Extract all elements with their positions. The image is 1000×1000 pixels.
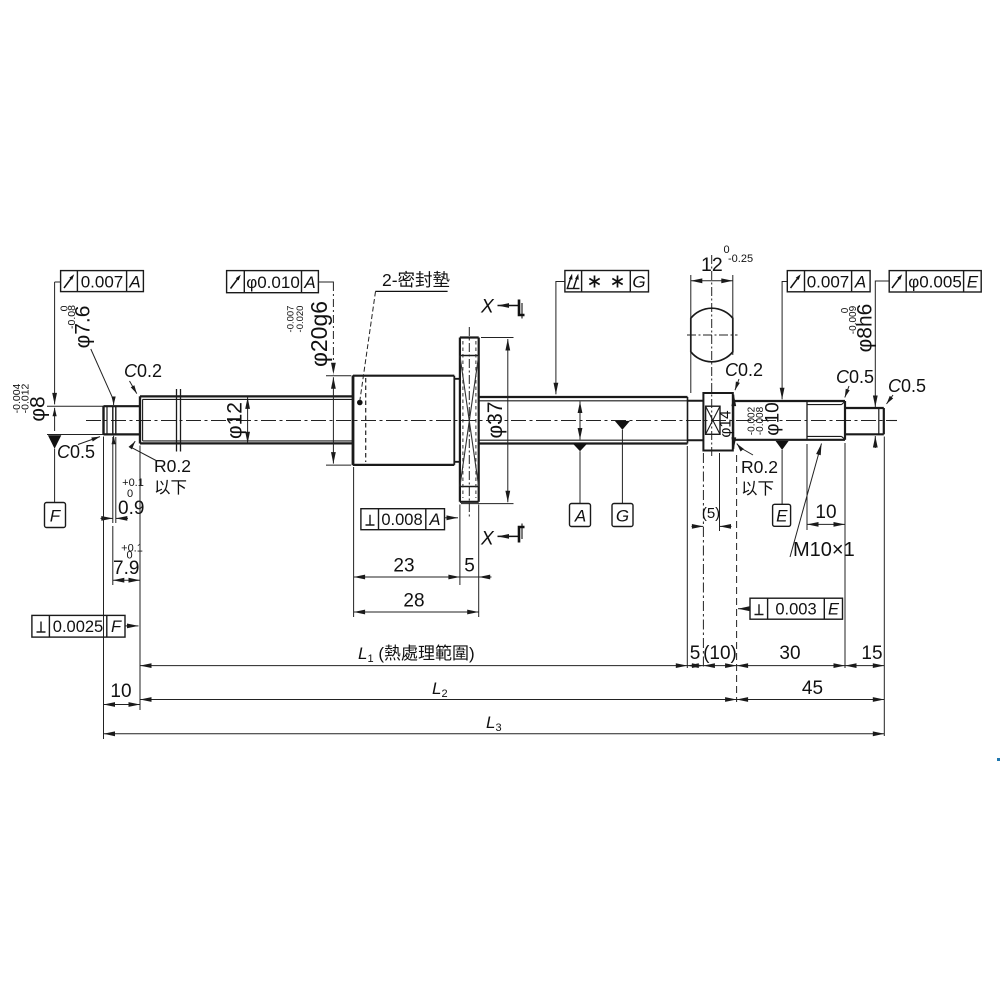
svg-text:0.003: 0.003 [775, 600, 816, 618]
svg-text:R0.2: R0.2 [741, 457, 778, 477]
svg-text:A: A [303, 273, 315, 292]
phi8h6 end journal outline [845, 408, 884, 434]
datum A triangle [573, 443, 588, 451]
svg-text:A: A [128, 272, 140, 291]
svg-text:以下: 以下 [154, 479, 187, 497]
flange hidden lines [463, 341, 476, 498]
svg-text:φ20g6: φ20g6 [306, 301, 332, 367]
seal leader dot [357, 400, 363, 406]
svg-text:-0.020: -0.020 [295, 306, 306, 333]
svg-text:(5): (5) [702, 505, 720, 522]
svg-text:0: 0 [126, 550, 132, 562]
leader arrow from frame3 [555, 293, 557, 394]
svg-text:A: A [854, 272, 866, 291]
svg-text:5: 5 [464, 556, 475, 577]
datum E box [773, 504, 791, 526]
phi8 inner up arrow [54, 408, 56, 431]
svg-text:2-密封墊: 2-密封墊 [382, 270, 450, 290]
phi10 section outline [733, 401, 807, 440]
svg-text:-0.009: -0.009 [848, 305, 859, 334]
phi12 section outline [140, 396, 353, 443]
svg-text:C0.2: C0.2 [725, 360, 763, 380]
svg-text:G: G [616, 507, 629, 526]
collar groove box with cross [706, 406, 720, 434]
break marks on phi12 [177, 389, 181, 452]
svg-text:15: 15 [861, 643, 882, 664]
ball horizontal centerline [687, 334, 738, 336]
svg-text:G: G [632, 273, 645, 292]
svg-text:30: 30 [779, 643, 800, 664]
flange crosshatch [460, 356, 479, 487]
svg-text:45: 45 [802, 678, 823, 699]
svg-text:E: E [828, 600, 840, 618]
phi14 collar outline [703, 393, 732, 451]
M10 thread section outline [807, 401, 845, 440]
svg-text:28: 28 [403, 591, 424, 612]
phi7.6 leader [91, 349, 113, 399]
svg-text:23: 23 [393, 556, 414, 577]
svg-text:0.007: 0.007 [81, 272, 124, 291]
datum E triangle [776, 441, 789, 450]
flange vertical centerline [468, 327, 470, 517]
svg-text:E: E [776, 507, 788, 526]
shaft left journal phi8 outline [104, 406, 141, 435]
neck between screw and collar [688, 401, 704, 440]
seal hidden line [365, 378, 367, 462]
datum F box [45, 503, 66, 528]
svg-text:0.008: 0.008 [381, 511, 422, 529]
phi20g6 section outline [353, 375, 460, 465]
datum G triangle on axis [615, 421, 630, 430]
phi7.6 arrows [113, 399, 115, 405]
svg-text:-0.25: -0.25 [728, 253, 753, 265]
svg-text:F: F [50, 507, 62, 526]
svg-text:φ0.005: φ0.005 [908, 273, 962, 292]
svg-text:0: 0 [58, 305, 70, 311]
svg-text:0: 0 [127, 488, 133, 500]
svg-text:0.007: 0.007 [807, 272, 850, 291]
svg-text:F: F [111, 618, 122, 636]
blue scan artifact [997, 758, 1000, 761]
svg-text:A: A [574, 507, 586, 526]
svg-text:以下: 以下 [741, 480, 774, 498]
datum A leader [579, 451, 581, 503]
svg-text:10: 10 [110, 681, 131, 702]
svg-text:5: 5 [690, 643, 701, 664]
svg-text:C0.5: C0.5 [836, 367, 874, 387]
datum F leader line [54, 449, 56, 503]
phi8 extension lines [47, 406, 104, 434]
svg-text:0.0025: 0.0025 [53, 618, 103, 636]
svg-text:X: X [480, 529, 495, 550]
datum G leader [621, 430, 623, 504]
asterisks [589, 276, 622, 288]
ball screw thread section outline [479, 397, 688, 444]
datum G box [612, 504, 633, 527]
flange phi37 outline [460, 338, 479, 502]
svg-text:-0.012: -0.012 [19, 383, 31, 413]
svg-text:φ12: φ12 [224, 402, 247, 439]
ball over groove [691, 308, 733, 362]
centerline main axis [86, 420, 897, 422]
svg-text:(10): (10) [703, 643, 737, 664]
svg-text:R0.2: R0.2 [154, 456, 191, 476]
svg-text:-0.008: -0.008 [755, 406, 766, 435]
datum E leader [781, 450, 783, 504]
svg-text:L1 (熱處理範圍): L1 (熱處理範圍) [358, 644, 475, 665]
svg-text:X: X [480, 297, 495, 318]
svg-text:φ14: φ14 [718, 410, 735, 438]
collar vertical centerline [711, 255, 713, 457]
phi8 dim leader from frame1 [54, 282, 56, 404]
svg-text:E: E [967, 273, 979, 292]
svg-text:10: 10 [815, 502, 836, 523]
svg-text:A: A [428, 511, 440, 529]
phi10 leader from frame4 [781, 293, 783, 399]
svg-text:C0.2: C0.2 [124, 361, 162, 381]
svg-text:C0.5: C0.5 [888, 376, 926, 396]
screw root dim arrows [579, 402, 581, 440]
svg-text:12: 12 [701, 254, 723, 276]
svg-text:φ0.010: φ0.010 [246, 273, 300, 292]
datum A box [570, 504, 591, 527]
svg-text:C0.5: C0.5 [57, 442, 95, 462]
seal leader line [360, 292, 376, 402]
svg-text:φ37: φ37 [484, 402, 507, 439]
datum F triangle [48, 435, 61, 448]
